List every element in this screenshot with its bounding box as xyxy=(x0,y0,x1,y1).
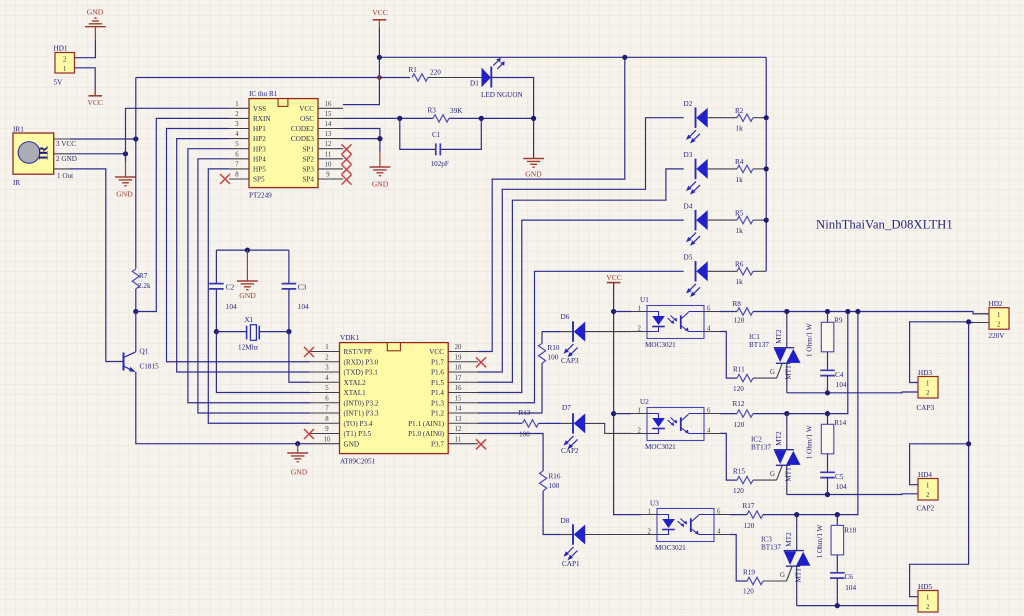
node junction R7/Q1 collector/RXIN xyxy=(133,309,138,314)
pin stubs VDK1 right xyxy=(448,352,478,444)
resistor R14 1 Ohm/1 W xyxy=(806,414,847,472)
capacitor C1 102pF xyxy=(431,131,449,168)
LED D6 (CAP3) xyxy=(561,313,586,365)
svg-text:NinhThaiVan_D08XLTH1: NinhThaiVan_D08XLTH1 xyxy=(816,217,953,231)
svg-text:HP2: HP2 xyxy=(253,135,266,143)
svg-text:100: 100 xyxy=(549,482,560,490)
node junction U2 pin1 xyxy=(611,411,616,416)
svg-text:R19: R19 xyxy=(743,568,755,576)
resistor R5 1k xyxy=(708,209,767,235)
wire IC3 MT2 row to rail C xyxy=(763,312,858,515)
wire P1.3 to D5 xyxy=(478,271,684,402)
pin stubs IR1 xyxy=(54,139,70,169)
svg-text:R2: R2 xyxy=(735,107,744,115)
wire IC1 MT1 row to HD3 pin2 xyxy=(787,391,918,394)
svg-text:HP1: HP1 xyxy=(253,125,266,133)
svg-text:MT1: MT1 xyxy=(785,467,793,482)
ground GND (top-left, above HD1) xyxy=(85,8,106,40)
svg-text:IR: IR xyxy=(37,145,51,160)
resistor R6 1k xyxy=(708,261,767,287)
svg-text:MT2: MT2 xyxy=(785,532,793,547)
resistor R19 120 xyxy=(743,568,787,595)
svg-text:4: 4 xyxy=(325,375,329,382)
wire HP5 to P3.4 xyxy=(208,169,310,423)
wire HP4 to P3.3 xyxy=(198,159,310,413)
capacitor C4 104 xyxy=(820,370,847,393)
svg-text:102pF: 102pF xyxy=(431,160,449,168)
svg-text:8: 8 xyxy=(235,172,239,179)
svg-text:6: 6 xyxy=(325,395,329,402)
resistor R8 120 xyxy=(720,300,753,324)
svg-text:11: 11 xyxy=(455,436,462,443)
svg-text:20: 20 xyxy=(455,344,462,351)
wire 220V line to HD2 pin1 xyxy=(753,312,989,314)
svg-text:MT2: MT2 xyxy=(775,431,783,446)
svg-text:GND: GND xyxy=(291,468,308,477)
svg-text:R8: R8 xyxy=(733,300,742,308)
wire HD2 pin2 net xyxy=(910,322,973,383)
ground GND (below VDK1) xyxy=(287,444,308,477)
svg-text:3 VCC: 3 VCC xyxy=(56,140,76,148)
svg-text:R17: R17 xyxy=(743,502,755,510)
svg-text:14: 14 xyxy=(325,121,332,128)
wire VCC top rail to LED rail xyxy=(379,56,766,58)
svg-text:Q1: Q1 xyxy=(140,348,149,356)
svg-text:IC1: IC1 xyxy=(749,333,760,341)
svg-text:XTAL2: XTAL2 xyxy=(344,379,367,387)
svg-text:D8: D8 xyxy=(561,517,570,525)
capacitor C5 104 xyxy=(820,472,847,494)
pin stubs VDK1 left xyxy=(310,352,340,444)
IR receiver IR1 xyxy=(13,126,77,188)
svg-text:IC3: IC3 xyxy=(761,536,772,544)
svg-text:VCC: VCC xyxy=(87,98,103,107)
svg-text:104: 104 xyxy=(845,584,856,592)
svg-text:GND: GND xyxy=(372,179,389,188)
svg-text:RST/VPP: RST/VPP xyxy=(344,348,372,356)
svg-text:3: 3 xyxy=(235,121,239,128)
svg-text:HP4: HP4 xyxy=(253,155,266,163)
svg-text:1: 1 xyxy=(325,344,328,351)
svg-text:1k: 1k xyxy=(736,176,744,184)
svg-text:100: 100 xyxy=(519,431,530,439)
LED D5 xyxy=(684,254,708,297)
wire R3 output xyxy=(449,117,534,119)
node junction C1 left xyxy=(397,116,402,121)
wire VCC column to PT2249 pin16 xyxy=(343,28,379,105)
svg-text:120: 120 xyxy=(733,385,744,393)
node junction GND row xyxy=(295,441,300,446)
capacitor C6 104 xyxy=(830,573,856,606)
ground GND (below IR1) xyxy=(115,162,136,198)
svg-text:16: 16 xyxy=(455,385,462,392)
svg-text:2: 2 xyxy=(325,354,329,361)
svg-text:C5: C5 xyxy=(835,473,844,481)
node junction HD2 pin2 xyxy=(966,319,971,324)
svg-text:C2: C2 xyxy=(226,283,235,291)
svg-text:AT89C2051: AT89C2051 xyxy=(340,457,376,465)
node junction GND tap xyxy=(245,248,250,253)
ground GND (below D1) xyxy=(523,159,544,179)
svg-text:7: 7 xyxy=(235,161,239,168)
pin stubs PT2249 left xyxy=(229,108,249,179)
node junction rail D2 xyxy=(764,115,769,120)
wire OSC to R3 xyxy=(343,117,433,119)
svg-text:11: 11 xyxy=(325,151,332,158)
svg-text:P1.5: P1.5 xyxy=(431,379,444,387)
wire VCC opto column xyxy=(614,283,641,515)
svg-text:G: G xyxy=(770,369,775,376)
svg-text:D7: D7 xyxy=(562,404,571,412)
no-connect X pin19 P1.7 xyxy=(476,357,486,367)
svg-text:D4: D4 xyxy=(684,202,693,210)
wire XTAL2 drop xyxy=(289,332,310,383)
svg-text:LED NGUON: LED NGUON xyxy=(481,91,524,99)
svg-text:GND: GND xyxy=(525,170,542,179)
no-connect X pin12 SP1 xyxy=(342,144,352,154)
svg-text:VDK1: VDK1 xyxy=(340,334,360,342)
svg-text:104: 104 xyxy=(836,381,847,389)
pin stubs HD2 xyxy=(973,314,989,323)
svg-text:C6: C6 xyxy=(845,573,854,581)
svg-text:CAP3: CAP3 xyxy=(917,404,935,412)
wire P1.2 to R10 xyxy=(478,364,542,414)
svg-text:R7: R7 xyxy=(139,272,148,280)
wire U1 pin4 to R11 xyxy=(720,332,737,379)
node junction rail D4 xyxy=(764,218,769,223)
triac IC1 BT137 xyxy=(749,312,801,393)
svg-text:C1: C1 xyxy=(432,131,441,139)
svg-text:2.2k: 2.2k xyxy=(138,282,151,290)
node junction R9 top xyxy=(825,309,830,314)
svg-text:D1: D1 xyxy=(470,79,479,87)
svg-text:MT1: MT1 xyxy=(795,568,803,583)
svg-text:104: 104 xyxy=(226,303,237,311)
svg-text:18: 18 xyxy=(455,365,462,372)
wire R10 to D6 xyxy=(542,331,561,333)
svg-text:1: 1 xyxy=(235,101,238,108)
power VCC (above U1) xyxy=(606,273,622,282)
resistor R7 2.2k xyxy=(132,269,151,312)
svg-text:C4: C4 xyxy=(835,371,844,379)
svg-text:15: 15 xyxy=(455,395,462,402)
wire C2/C3 top rail xyxy=(216,249,289,251)
wire P1.4 to D4 xyxy=(478,220,684,392)
svg-text:CODE2: CODE2 xyxy=(291,125,315,133)
svg-text:BT137: BT137 xyxy=(749,341,769,349)
node junction rail D3 xyxy=(764,166,769,171)
svg-text:BT137: BT137 xyxy=(751,444,771,452)
svg-text:(INT0) P3.2: (INT0) P3.2 xyxy=(344,399,380,407)
svg-text:16: 16 xyxy=(325,101,332,108)
svg-text:P1.1 (AIN1): P1.1 (AIN1) xyxy=(408,420,445,428)
resistor R17 120 xyxy=(730,502,763,530)
svg-text:3: 3 xyxy=(325,365,329,372)
ground GND (between C2 C3) xyxy=(237,250,258,300)
wire RXIN link xyxy=(136,118,229,311)
svg-text:1 Ohm/1 W: 1 Ohm/1 W xyxy=(816,524,824,558)
svg-text:MT1: MT1 xyxy=(785,365,793,380)
svg-text:P1.3: P1.3 xyxy=(431,399,444,407)
svg-text:13: 13 xyxy=(325,131,332,138)
resistor R1 220 xyxy=(409,66,442,81)
svg-text:120: 120 xyxy=(743,588,754,596)
wire P1.6 to D2 xyxy=(478,118,684,372)
svg-text:104: 104 xyxy=(836,483,847,491)
svg-text:220: 220 xyxy=(430,69,441,77)
svg-text:IC thu R1: IC thu R1 xyxy=(249,90,278,98)
svg-text:R1: R1 xyxy=(409,66,418,74)
capacitor C3 104 xyxy=(282,250,309,332)
wire R13 to D7 xyxy=(539,422,562,424)
resistor R12 120 xyxy=(720,400,753,429)
wire R1 to D1 xyxy=(428,77,482,79)
node junction IC3 MT2 xyxy=(794,512,799,517)
svg-text:CAP1: CAP1 xyxy=(562,560,580,568)
LED D2 xyxy=(684,100,708,143)
svg-text:120: 120 xyxy=(733,487,744,495)
svg-text:VCC: VCC xyxy=(372,8,388,17)
svg-text:HD2: HD2 xyxy=(989,300,1003,308)
wire U2 pin4 to R15 xyxy=(720,433,737,480)
svg-text:GND: GND xyxy=(239,291,256,300)
no-connect X pin11 P3.7 xyxy=(476,439,486,449)
svg-text:G: G xyxy=(770,471,775,478)
svg-text:C1815: C1815 xyxy=(140,363,160,371)
svg-text:HP5: HP5 xyxy=(253,166,266,174)
no-connect X pin9 T1 xyxy=(304,429,314,439)
svg-text:IR: IR xyxy=(13,179,20,187)
svg-text:GND: GND xyxy=(116,189,133,198)
IC VDK1 AT89C2051 xyxy=(324,334,462,465)
node junction VCC top wire xyxy=(377,55,382,60)
svg-text:BT137: BT137 xyxy=(761,544,781,552)
svg-text:GND: GND xyxy=(344,440,360,448)
power VCC (below HD1) xyxy=(87,88,103,107)
wire IR1 VCC pin3 xyxy=(70,138,136,140)
svg-text:HD5: HD5 xyxy=(918,583,932,591)
svg-text:SP2: SP2 xyxy=(302,155,314,163)
svg-text:R10: R10 xyxy=(548,344,560,352)
svg-text:1: 1 xyxy=(63,66,66,73)
node junction R14 top xyxy=(825,411,830,416)
svg-text:15: 15 xyxy=(325,111,332,118)
wire HD1 pin1 to VCC xyxy=(75,68,96,96)
wire P1.1 to R13 xyxy=(478,422,522,424)
node junction IC1 MT2 xyxy=(784,309,789,314)
IC U-PT2249 (IC thu R1) xyxy=(235,90,332,200)
svg-text:R4: R4 xyxy=(735,158,744,166)
svg-text:VCC: VCC xyxy=(429,348,444,356)
svg-text:12: 12 xyxy=(325,141,332,148)
svg-text:(T1) P3.5: (T1) P3.5 xyxy=(344,430,372,438)
LED D1 (LED NGUON) xyxy=(470,58,524,99)
resistor R10 100 xyxy=(538,332,559,364)
wire VCC branch to R1 and IR column xyxy=(136,77,410,79)
wire P1.5 to D3 xyxy=(478,169,684,382)
resistor R18 1 Ohm/1 W xyxy=(816,515,857,573)
resistor R4 1k xyxy=(708,158,767,184)
svg-text:R16: R16 xyxy=(549,472,561,480)
node junction X1 right xyxy=(286,329,291,334)
svg-text:VCC: VCC xyxy=(299,105,314,113)
LED D7 (CAP2) xyxy=(561,404,585,455)
node junction VCC R1 branch xyxy=(377,75,382,80)
resistor R11 120 xyxy=(733,366,777,393)
svg-text:39K: 39K xyxy=(450,107,463,115)
svg-text:2: 2 xyxy=(235,111,239,118)
node junction D1 column xyxy=(531,116,536,121)
svg-text:120: 120 xyxy=(734,316,745,324)
svg-text:CAP2: CAP2 xyxy=(917,505,935,513)
svg-text:17: 17 xyxy=(455,375,462,382)
node junction IR VCC xyxy=(133,136,138,141)
svg-text:9: 9 xyxy=(325,426,329,433)
wire IR1 GND pin2 xyxy=(70,153,126,155)
svg-text:R14: R14 xyxy=(834,419,846,427)
LED D4 xyxy=(684,202,708,245)
svg-text:R15: R15 xyxy=(733,468,745,476)
wire VCC column to R7 xyxy=(135,78,137,269)
svg-text:R12: R12 xyxy=(733,400,745,408)
svg-text:10: 10 xyxy=(324,436,331,443)
no-connect X pin9 SP4 xyxy=(342,175,352,185)
svg-text:OSC: OSC xyxy=(300,115,314,123)
svg-text:VCC: VCC xyxy=(606,273,622,282)
svg-text:HP3: HP3 xyxy=(253,145,266,153)
resistor R3 39K xyxy=(428,107,464,123)
svg-text:1 Ohm/1 W: 1 Ohm/1 W xyxy=(806,425,814,459)
svg-text:100: 100 xyxy=(548,354,559,362)
svg-text:13: 13 xyxy=(455,416,462,423)
wire IC2 MT1 row to HD4 pin2 xyxy=(787,493,918,496)
svg-text:RXIN: RXIN xyxy=(253,115,271,123)
ground GND (right of PT2249) xyxy=(370,152,391,188)
svg-text:120: 120 xyxy=(734,421,745,429)
svg-text:G: G xyxy=(780,572,785,579)
connector HD1 xyxy=(54,45,75,87)
resistor R9 1 Ohm/1 W xyxy=(806,312,843,371)
svg-text:1k: 1k xyxy=(736,227,744,235)
pin stubs PT2249 right xyxy=(318,108,343,179)
wire Q1 emitter to GND row xyxy=(136,372,310,444)
svg-text:D3: D3 xyxy=(684,151,693,159)
connector HD4 CAP2 xyxy=(917,471,939,513)
node junction U1 pin1 xyxy=(611,309,616,314)
svg-text:IC2: IC2 xyxy=(751,435,762,443)
svg-text:2 GND: 2 GND xyxy=(56,155,77,163)
node junction HD4 branch xyxy=(966,441,971,446)
svg-text:U1: U1 xyxy=(640,296,649,304)
connector HD2 220V xyxy=(989,300,1010,340)
svg-text:R9: R9 xyxy=(834,317,843,325)
node junction C4 bottom xyxy=(825,390,830,395)
svg-text:5: 5 xyxy=(325,385,329,392)
node junction C5 bottom xyxy=(825,492,830,497)
svg-text:MOC3021: MOC3021 xyxy=(655,544,686,552)
node junction IR GND / VSS xyxy=(123,151,128,156)
optocoupler U2 MOC3021 xyxy=(631,398,720,451)
svg-text:D2: D2 xyxy=(684,100,693,108)
svg-text:CAP2: CAP2 xyxy=(561,447,579,455)
node junction C6 bottom xyxy=(835,603,840,608)
svg-text:SP5: SP5 xyxy=(253,176,265,184)
svg-text:1 Out: 1 Out xyxy=(57,172,73,180)
svg-text:SP1: SP1 xyxy=(302,145,314,153)
svg-text:C3: C3 xyxy=(298,283,307,291)
wire D1 to GND column xyxy=(491,78,533,159)
wire HP1 to P3.0 xyxy=(167,129,311,362)
svg-text:220V: 220V xyxy=(989,332,1006,340)
svg-text:GND: GND xyxy=(87,8,104,17)
resistor R13 100 xyxy=(519,409,539,438)
svg-text:104: 104 xyxy=(298,303,309,311)
svg-text:1 Ohm/1 W: 1 Ohm/1 W xyxy=(806,323,814,357)
wire C1 loop xyxy=(400,118,482,149)
svg-text:19: 19 xyxy=(455,354,462,361)
node junction rail C xyxy=(855,309,860,314)
svg-text:XTAL1: XTAL1 xyxy=(344,389,367,397)
wire CODE2/CODE3 to GND xyxy=(343,129,380,153)
wire U1 pin1 branch xyxy=(614,311,631,313)
wire VDK VCC pin20 riser to top rail xyxy=(478,57,625,351)
wire HD4 pin1 branch xyxy=(910,444,969,485)
crystal X1 12Mhz xyxy=(216,316,289,352)
svg-text:5V: 5V xyxy=(54,79,64,87)
svg-text:R18: R18 xyxy=(844,527,856,535)
svg-text:4: 4 xyxy=(235,131,239,138)
svg-text:12: 12 xyxy=(455,426,462,433)
svg-text:CAP3: CAP3 xyxy=(561,357,579,365)
no-connect X pin11 SP2 xyxy=(342,154,352,164)
svg-text:(TO) P3.4: (TO) P3.4 xyxy=(344,420,373,428)
svg-text:7: 7 xyxy=(325,406,329,413)
wire HP2 to P3.1 xyxy=(177,139,310,372)
svg-text:14: 14 xyxy=(455,406,462,413)
triac IC2 BT137 xyxy=(751,414,801,495)
svg-text:U3: U3 xyxy=(650,500,659,508)
svg-text:MOC3021: MOC3021 xyxy=(645,443,676,451)
svg-text:P1.4: P1.4 xyxy=(431,389,444,397)
svg-text:U2: U2 xyxy=(640,398,649,406)
svg-text:(TXD) P3.1: (TXD) P3.1 xyxy=(344,369,379,377)
svg-text:9: 9 xyxy=(326,172,330,179)
wire D7 to U2 pin2 xyxy=(585,423,631,433)
node junction C1 right xyxy=(479,116,484,121)
svg-text:HD1: HD1 xyxy=(54,45,68,53)
triac IC3 BT137 xyxy=(761,515,810,606)
LED D3 xyxy=(684,151,708,194)
svg-text:PT2249: PT2249 xyxy=(249,192,272,200)
svg-text:1k: 1k xyxy=(736,278,744,286)
svg-text:P3.7: P3.7 xyxy=(431,440,444,448)
power VCC (main, top) xyxy=(372,8,388,28)
svg-text:P1.2: P1.2 xyxy=(431,410,444,418)
svg-text:IR1: IR1 xyxy=(13,126,24,134)
wire P1.0 to R16 xyxy=(478,434,543,472)
svg-text:HD3: HD3 xyxy=(918,369,932,377)
svg-text:2: 2 xyxy=(63,57,67,64)
no-connect X pin10 SP3 xyxy=(342,165,352,175)
transistor Q1 C1815 xyxy=(124,348,160,372)
svg-text:120: 120 xyxy=(744,522,755,530)
node junction rail B xyxy=(845,309,850,314)
node junction X1 left xyxy=(214,329,219,334)
optocoupler U1 MOC3021 xyxy=(631,296,720,349)
connector HD5 xyxy=(918,583,938,612)
wire IR1 Out to Q1 base xyxy=(70,169,124,362)
wire U2 pin1 branch xyxy=(614,413,631,415)
